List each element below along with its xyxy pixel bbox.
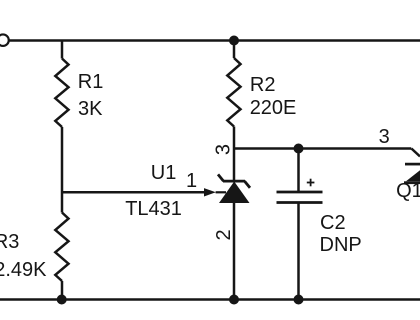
- node bottom junction R3: [57, 295, 67, 305]
- svg-text:2: 2: [213, 229, 235, 240]
- wire bottom rail: [0, 298, 420, 301]
- svg-text:DNP: DNP: [320, 234, 362, 256]
- plus polarity mark of C2: [307, 179, 315, 187]
- node C2 top junction: [294, 144, 304, 154]
- wire top rail: [9, 39, 420, 42]
- label U1 TL431: [125, 162, 182, 220]
- transistor Q1 (partially visible at edge): [404, 164, 420, 183]
- resistor R3: [55, 192, 68, 300]
- svg-text:R2: R2: [250, 74, 276, 96]
- node bottom junction C2: [294, 295, 304, 305]
- svg-text:TL431: TL431: [125, 198, 182, 220]
- capacitor C2: [277, 149, 323, 300]
- node bottom junction U1 anode: [229, 295, 239, 305]
- svg-text:2.49K: 2.49K: [0, 259, 47, 281]
- label C2 DNP: [320, 212, 362, 256]
- svg-text:R1: R1: [78, 71, 104, 93]
- svg-text:U1: U1: [151, 162, 177, 184]
- terminal circle (input port): [0, 34, 9, 46]
- resistor R1: [55, 41, 68, 193]
- pin 1 arrow of U1: [204, 188, 226, 196]
- svg-text:1: 1: [186, 170, 197, 192]
- svg-text:Q1: Q1: [396, 180, 420, 202]
- svg-text:C2: C2: [320, 212, 346, 234]
- wire ref divider to U1: [62, 191, 205, 194]
- svg-text:R3: R3: [0, 231, 19, 253]
- svg-text:3K: 3K: [78, 98, 103, 120]
- wire U1 anode to bottom rail: [233, 203, 236, 300]
- op-amp U1 TL431 shunt regulator symbol: [218, 174, 250, 203]
- svg-text:3: 3: [379, 126, 390, 148]
- label R2 220E: [250, 74, 297, 119]
- node top junction R2: [229, 36, 239, 46]
- label R1 3K: [78, 71, 104, 120]
- label R3 2.49K: [0, 231, 47, 281]
- svg-text:3: 3: [213, 144, 235, 155]
- resistor R2: [227, 41, 240, 182]
- svg-text:220E: 220E: [250, 97, 297, 119]
- wire cathode node to Q1 base: [234, 149, 420, 157]
